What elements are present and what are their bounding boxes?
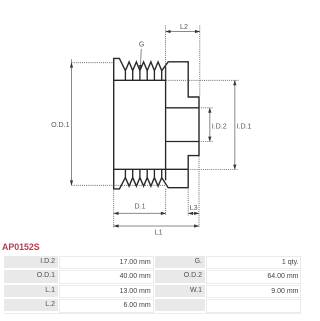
svg-text:L1: L1 <box>155 229 163 237</box>
bottom extension dotted x=199 <box>198 157 200 228</box>
body top edge <box>114 79 167 81</box>
svg-text:G: G <box>139 41 145 49</box>
dimension L.3 line <box>188 212 199 214</box>
groove valley verticals (top) <box>125 71 161 81</box>
I.D.1 extension dotted top <box>166 79 238 81</box>
O.D.1 bottom extension dotted <box>72 184 167 186</box>
I.D.2 extension dotted bottom <box>199 141 214 143</box>
dimension O.D.1 line <box>71 59 73 185</box>
I.D.1 extension dotted bottom <box>188 169 238 171</box>
dimension I.D.1 line <box>234 80 236 169</box>
L.2 right extension dashed <box>199 26 201 98</box>
svg-text:L2: L2 <box>180 23 188 31</box>
dimension L.1 line <box>114 225 199 227</box>
groove notch verticals (bottom) <box>125 169 161 177</box>
dimension D.1 line <box>114 212 166 214</box>
svg-text:I.D.2: I.D.2 <box>212 122 227 130</box>
spec table row 3 <box>4 285 58 297</box>
spec table row 4 <box>4 299 58 311</box>
spec table row 2 <box>4 270 58 282</box>
body bottom edge <box>114 168 189 170</box>
dimension I.D.2 line <box>209 108 211 142</box>
bottom extension dotted x=188.2 <box>187 190 189 216</box>
svg-text:O.D.1: O.D.1 <box>51 121 70 129</box>
svg-text:I.D.1: I.D.1 <box>237 123 252 131</box>
section front face line <box>165 67 167 181</box>
bottom extension dotted x=165.7 <box>165 189 167 215</box>
O.D.1 top extension dotted <box>72 62 114 64</box>
part code heading <box>2 242 40 252</box>
pulley left-view outline with grooves <box>114 58 199 189</box>
svg-text:D.1: D.1 <box>134 203 145 211</box>
svg-text:L3: L3 <box>190 204 198 212</box>
L.2 left extension dashed <box>165 26 167 81</box>
dimension L.2 line <box>166 31 200 33</box>
bottom extension dotted x=113.7 <box>113 191 115 228</box>
bore top edge <box>166 107 199 109</box>
bottom separator line <box>4 313 301 314</box>
I.D.2 extension dotted top <box>199 107 214 109</box>
spec table row 1 <box>4 256 58 268</box>
bore bottom edge <box>166 141 199 143</box>
